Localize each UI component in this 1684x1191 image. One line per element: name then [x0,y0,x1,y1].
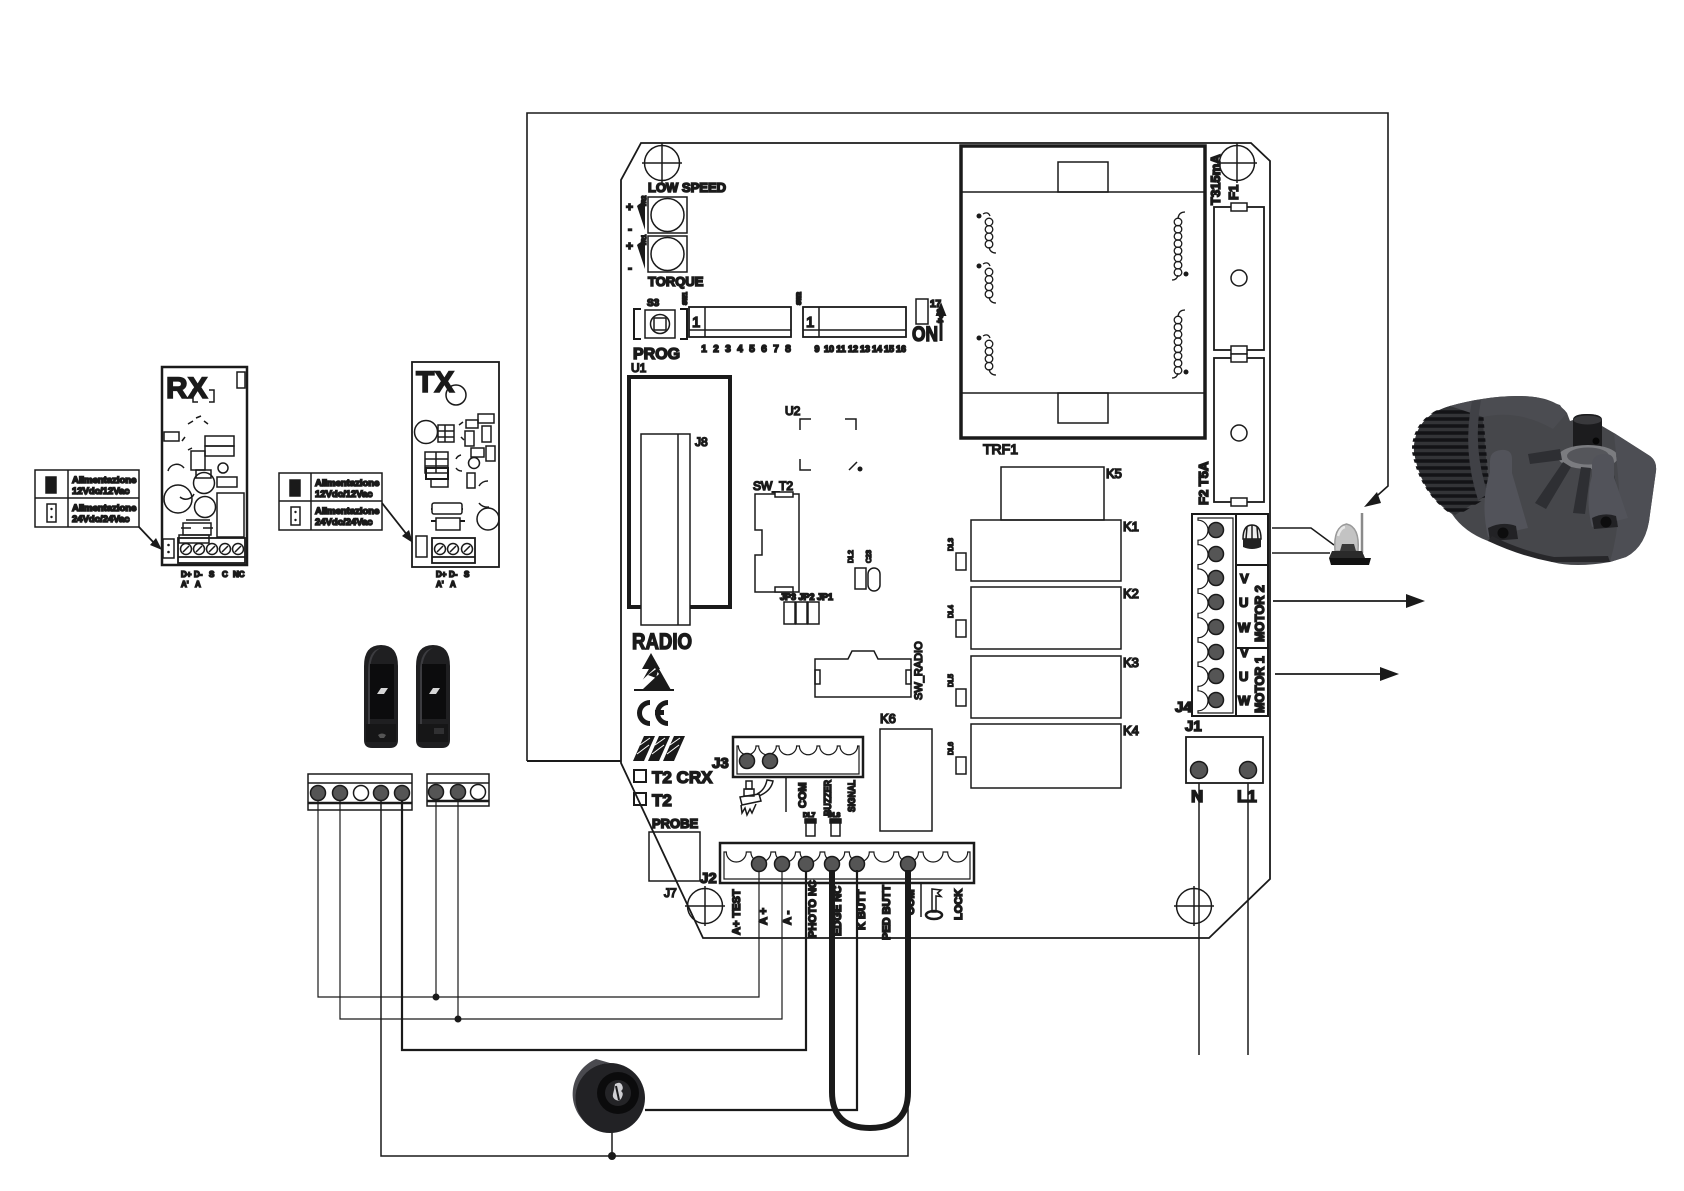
connector J2 [700,843,974,887]
relay K4 [971,723,1139,788]
svg-text:PHOTO NC: PHOTO NC [807,880,819,938]
LOCK stub line [920,883,922,917]
motor photo [1405,396,1656,565]
svg-text:LOW SPEED: LOW SPEED [648,180,726,195]
RX jumper connector [163,539,174,558]
tb1 pin 4 [374,786,389,801]
J1 pin N [1191,762,1208,779]
svg-text:A: A [195,580,201,589]
TX terminal labels [436,570,470,589]
svg-text:U2: U2 [785,404,801,418]
potentiometer TR1 TORQUE [626,234,704,289]
TRF1 primary coil 3 [977,335,997,375]
wire enclosure outer boundary [527,113,1388,761]
RX terminal screw 3 [207,544,218,555]
J2 pin BUTT [850,857,865,872]
svg-text:A -: A - [782,910,794,925]
J4 pin M2 V [1209,571,1224,586]
svg-text:U: U [1239,669,1248,684]
svg-text:4: 4 [737,344,743,355]
led DL6 [948,742,966,774]
DIP switch SW2 [797,291,906,354]
lamp icon on board [1243,525,1261,549]
TX terminal screw 3 [462,544,473,555]
svg-text:24Vdc/24Vac: 24Vdc/24Vac [315,517,373,528]
svg-text:RX: RX [166,372,208,405]
svg-text:Alimentazione: Alimentazione [315,478,379,489]
push button S3 PROG [633,298,687,363]
tb1 pin 3 [354,786,369,801]
svg-text:V: V [1240,571,1249,586]
TRF1 secondary coil 2 [1172,310,1189,378]
svg-text:NC: NC [233,570,245,579]
svg-text:DL8: DL8 [828,812,841,819]
svg-text:3: 3 [725,344,731,355]
checkbox T2 CRX [634,768,713,787]
photocell TX post [416,645,450,748]
J3 pin 1 [740,754,755,769]
svg-text:SIGNAL: SIGNAL [846,780,858,812]
svg-text:8: 8 [785,344,791,355]
relay K2 [971,586,1139,649]
svg-text:J7: J7 [664,886,677,900]
svg-text:T315mA: T315mA [1208,154,1223,205]
wire tb1-1 to A+TEST [318,801,759,997]
screw top-left [642,143,682,183]
RX terminal screw 2 [194,544,205,555]
svg-text:DL7: DL7 [803,812,816,819]
RX terminal screw 1 [181,544,192,555]
hatched stripes mark [633,736,685,761]
RX terminal screw 4 [220,544,231,555]
IC footprint U2 [785,404,863,472]
TX transmitter board [412,362,499,567]
J2 pin A+ [775,857,790,872]
arrow motor 2 [1273,594,1425,608]
svg-text:D-: D- [194,570,203,579]
TX terminal screw 1 [435,544,446,555]
svg-text:S3: S3 [647,298,660,309]
svg-text:F1: F1 [1226,185,1241,200]
screw top-right [1217,143,1257,183]
tb2 pin 2 [451,785,466,800]
svg-text:J2: J2 [700,870,717,887]
svg-text:T2: T2 [652,791,672,810]
alimentazione label box RX [35,470,139,527]
svg-text:+: + [626,239,633,253]
arrow to TX jumper [382,503,413,543]
J4 pin M2 W [1209,620,1224,635]
MOTOR 1 label box [1236,645,1268,716]
svg-text:9: 9 [814,344,819,354]
svg-text:Alimentazione: Alimentazione [315,506,379,517]
svg-text:14: 14 [872,344,882,354]
alimentazione label box TX [279,473,382,530]
svg-text:W: W [1238,693,1251,708]
wire tb2-1 down [435,799,437,997]
svg-text:L1: L1 [1237,787,1257,806]
svg-text:C23: C23 [866,550,873,563]
photocell terminal block 2 [427,774,489,806]
svg-text:Alimentazione: Alimentazione [72,503,136,514]
fuse F1 holder [1214,203,1264,354]
svg-text:-: - [628,222,632,236]
svg-text:DL5: DL5 [948,674,955,687]
svg-text:J3: J3 [712,755,729,772]
svg-text:S: S [464,570,470,579]
MOTOR 2 label box [1236,565,1268,648]
svg-text:K2: K2 [1123,586,1139,601]
junction key bottom [608,1152,616,1160]
main control board outline [621,143,1270,938]
RX terminal labels [181,570,245,589]
wire lamp line 1 [1272,528,1334,545]
J4 pin M2 U [1209,595,1224,610]
capacitor C23 [866,550,880,591]
svg-text:F2 T5A: F2 T5A [1196,461,1211,505]
lamp terminal box [1236,514,1268,565]
svg-text:K6: K6 [880,711,896,726]
svg-text:K3: K3 [1123,655,1139,670]
connector J1 [1185,718,1263,783]
J4 pin lamp1 [1209,523,1224,538]
wire tb1-5 to PHOTO NC [402,801,806,1050]
svg-text:1: 1 [806,314,814,331]
led DL5 [948,674,966,706]
led DL8 [828,812,841,836]
TRF1 secondary coil 1 [1172,212,1189,280]
relay K5 [1001,466,1122,520]
antenna icon [740,780,773,815]
svg-text:RADIO: RADIO [632,629,692,654]
svg-text:DL6: DL6 [948,742,955,755]
svg-text:2: 2 [713,344,719,355]
arrow to RX jumper [139,527,162,550]
svg-text:W: W [1238,620,1251,635]
CE mark [637,700,668,726]
J2 pin EDGE [825,857,840,872]
svg-text:12Vdc/12Vac: 12Vdc/12Vac [315,489,373,500]
probe connector J7 [649,816,700,900]
svg-text:ON: ON [912,323,938,346]
ESD warning symbol [634,653,674,690]
potentiometer TR2 LOW SPEED [626,180,726,236]
TX terminal block [432,538,475,563]
tb1 pin 2 [333,786,348,801]
J4 pin M1 U [1209,669,1224,684]
led DL4 [948,605,966,637]
svg-text:T2 CRX: T2 CRX [652,768,713,787]
wire tb1-4 to COM bottom [381,801,908,1156]
svg-text:MOTOR 1: MOTOR 1 [1253,656,1267,713]
svg-text:Alimentazione: Alimentazione [72,475,136,486]
tb1 pin 1 [311,786,326,801]
wire N [1198,783,1200,1055]
J3 pin 2 [763,754,778,769]
connector J3 [712,737,863,777]
relay K1 [971,519,1139,581]
checkbox T2 [634,791,672,810]
wire key bottom stub [611,1130,613,1156]
svg-text:DL2: DL2 [848,550,855,563]
flashing lamp [1329,513,1371,565]
svg-text:V: V [1240,645,1249,660]
svg-text:PED BUTT: PED BUTT [881,885,893,940]
svg-text:1: 1 [701,344,707,355]
wire tb2-2 down [457,799,459,1019]
J4 pin M1 V [1209,645,1224,660]
fuse F2 holder [1214,354,1264,506]
svg-text:J8: J8 [695,435,708,449]
transformer TRF1 [961,146,1205,457]
svg-text:A +: A + [758,908,770,925]
fuse F1 label [1208,154,1241,205]
TRF1 primary coil 2 [977,263,997,303]
photocell terminal block 1 [308,774,412,810]
J1 pin L1 [1240,762,1257,779]
tb2 pin 1 [429,785,444,800]
svg-text:BUZZER: BUZZER [822,780,834,816]
svg-text:K5: K5 [1106,466,1122,481]
svg-text:S: S [209,570,215,579]
svg-text:SW1: SW1 [683,291,689,305]
svg-text:13: 13 [860,344,870,354]
RX receiver board [162,367,247,565]
wire L1 [1247,783,1249,1055]
svg-text:K1: K1 [1123,519,1139,534]
svg-text:6: 6 [761,344,767,355]
svg-text:TX: TX [416,366,454,399]
screw bottom-right [1174,886,1214,926]
J4 pin lamp2 [1209,547,1224,562]
J2 pin A+TEST [752,857,767,872]
svg-text:15: 15 [884,344,894,354]
svg-text:J4: J4 [1175,699,1192,716]
svg-text:D+: D+ [436,570,447,579]
svg-text:DL3: DL3 [948,538,955,551]
svg-text:A': A' [436,580,444,589]
switch SW_T2 [753,479,799,592]
arrow motor 1 [1275,667,1399,681]
svg-text:U: U [1239,595,1248,610]
led DL3 [948,538,966,570]
svg-text:D-: D- [449,570,458,579]
svg-text:10: 10 [824,344,834,354]
svg-text:D+: D+ [181,570,192,579]
svg-text:16: 16 [896,344,906,354]
svg-text:DL4: DL4 [948,605,955,618]
svg-text:MOTOR 2: MOTOR 2 [1253,585,1267,642]
switch SW_RADIO [815,641,925,700]
svg-text:7: 7 [773,344,779,355]
svg-text:TRF1: TRF1 [983,441,1018,457]
COM stub line J3 [785,777,787,812]
svg-text:TORQUE: TORQUE [648,274,704,289]
RX terminal block [178,538,245,563]
TRF1 primary coil 1 [977,213,997,253]
radio connector J8 [641,434,708,625]
J4 pin M1 W [1209,693,1224,708]
junction tb2-1 [433,994,440,1001]
svg-text:N: N [1191,787,1203,806]
svg-text:12Vdc/12Vac: 12Vdc/12Vac [72,486,130,497]
svg-text:SW2: SW2 [797,291,803,305]
svg-text:5: 5 [749,344,755,355]
junction tb2-2 [455,1016,462,1023]
TX terminal screw 2 [448,544,459,555]
svg-text:COM: COM [797,782,809,808]
svg-text:C: C [222,570,228,579]
relay K6 [880,711,932,831]
photocell RX post [364,645,398,748]
RX terminal screw 5 [233,544,244,555]
DIP switch SW1 [683,291,791,355]
TX jumper connector [416,536,427,557]
svg-text:A: A [450,580,456,589]
svg-text:J1: J1 [1185,718,1202,735]
J2 pin COM [901,857,916,872]
svg-text:A+ TEST: A+ TEST [731,889,743,935]
jumper JP4 pin 17 ON [912,299,947,346]
svg-text:SW_RADIO: SW_RADIO [913,641,925,700]
J2 pin A- [799,857,814,872]
svg-text:11: 11 [836,344,846,354]
tb1 pin 5 [395,786,410,801]
connector J4 [1175,514,1236,716]
wire lamp line 2 [1272,552,1330,554]
jumpers JP3 JP2 JP1 [780,592,833,624]
relay K3 [971,655,1139,718]
svg-text:U1: U1 [631,361,647,375]
svg-text:K4: K4 [1123,723,1139,738]
svg-text:SW_T2: SW_T2 [753,479,793,493]
svg-text:LOCK: LOCK [953,889,965,920]
wire tb1-2 to A+ [340,801,782,1019]
screw bottom-left [685,886,725,926]
radio module U1 [629,361,730,607]
key icon LOCK [926,889,942,919]
led DL7 [803,812,816,836]
svg-text:-: - [628,261,632,275]
tb2 pin 3 [471,785,486,800]
svg-text:PROBE: PROBE [652,816,699,831]
wire antenna line to J3 [527,760,747,762]
svg-text:24Vdc/24Vac: 24Vdc/24Vac [72,514,130,525]
jumper wire EDGE-COM thick U [832,870,908,1128]
svg-text:A': A' [181,580,189,589]
svg-text:12: 12 [848,344,858,354]
svg-text:JP3 JP2 JP1: JP3 JP2 JP1 [780,592,833,602]
svg-text:1: 1 [692,314,700,331]
key switch [573,1059,645,1133]
led DL2 [848,550,866,589]
wire key to K BUTT [645,870,857,1110]
svg-text:+: + [626,200,633,214]
